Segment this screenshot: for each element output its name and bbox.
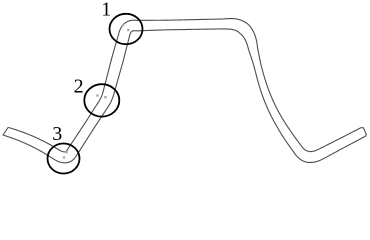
- svg-text:2: 2: [74, 76, 84, 98]
- tiny mark in circle 3 (b): [63, 156, 65, 158]
- svg-text:3: 3: [52, 123, 62, 145]
- circle 3 (bend marker): [48, 144, 80, 174]
- tiny mark in circle 3 (a): [65, 151, 67, 153]
- tiny mark in circle 2 (b): [104, 96, 106, 98]
- tiny mark in circle 1 (a): [122, 24, 124, 26]
- tiny mark in circle 1 (b): [127, 29, 129, 31]
- tiny mark in circle 2 (a): [96, 94, 98, 96]
- circle 2 (bend marker): [84, 84, 119, 116]
- circle 1 (bend marker): [110, 14, 143, 44]
- bent tube outline: [3, 19, 366, 163]
- svg-text:1: 1: [101, 0, 111, 21]
